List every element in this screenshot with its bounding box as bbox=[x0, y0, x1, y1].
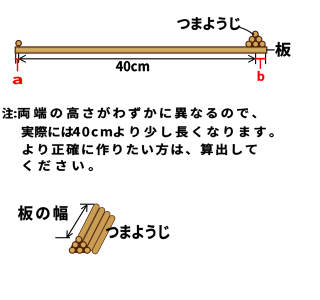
red tick at a bbox=[15, 58, 20, 60]
note text line 3 bbox=[23, 144, 257, 156]
board (plank, top figure) bbox=[15, 47, 267, 53]
dimension line 40cm bbox=[19, 58, 255, 60]
bottom arrow barbs bbox=[67, 230, 73, 237]
extension line right C (dim end) bbox=[255, 54, 257, 65]
extension line left B (dim start) bbox=[18, 54, 20, 63]
red drop line at a bbox=[17, 59, 19, 71]
left arrowhead bbox=[19, 55, 26, 62]
right arrowhead bbox=[248, 55, 255, 62]
toothpick bundle rods (bottom figure) bbox=[79, 207, 112, 251]
red label b bbox=[258, 71, 265, 81]
leader line to ita label bbox=[266, 49, 274, 51]
red tick at b bbox=[255, 58, 267, 60]
red label a bbox=[13, 77, 22, 84]
note text line 1 bbox=[2, 107, 256, 119]
dot on top toothpick (leader end) bbox=[252, 33, 254, 35]
bundle end circles (7 toothpick ends) bbox=[69, 237, 90, 254]
extension line right D (board right edge) bbox=[265, 54, 267, 65]
leader curve from tsumayouji label to stack bbox=[240, 28, 252, 34]
bottom tick bbox=[55, 237, 70, 239]
label tsumayouji (top) bbox=[177, 17, 240, 30]
note text line 4 bbox=[23, 160, 93, 171]
toothpick stack circles (pyramid of 6) bbox=[246, 31, 265, 47]
label 40cm bbox=[116, 61, 149, 71]
toothpick end circle at left end of board bbox=[16, 41, 21, 46]
label ita-no-haba (board width) bbox=[18, 206, 68, 221]
top arrow barbs bbox=[81, 205, 87, 212]
label ita (board) bbox=[275, 42, 290, 57]
label tsumayouji (bottom) bbox=[106, 225, 169, 239]
top tick bbox=[80, 203, 94, 205]
note text line 2 bbox=[22, 126, 274, 137]
toothpick stack backing (dark gaps) at right end bbox=[246, 31, 267, 47]
double arrow (bundle length = board width) shaft bbox=[67, 205, 87, 238]
red drop line at b bbox=[259, 59, 261, 69]
extension line left A (board left edge) bbox=[15, 54, 17, 64]
